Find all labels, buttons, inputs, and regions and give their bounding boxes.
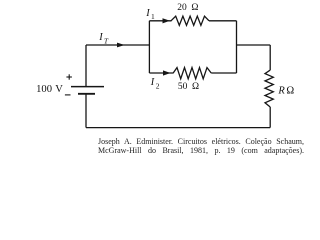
label R ohm — [277, 86, 294, 97]
svg-text:T: T — [104, 36, 109, 45]
battery 100 V: short (-) plate — [78, 93, 95, 95]
resistor 20 ohm (top branch zigzag) — [171, 16, 209, 25]
wire: bottom branch from resistor to right box line — [211, 72, 236, 74]
wire: left vertical from top wire down to battery positive plate — [85, 45, 87, 86]
svg-text:1: 1 — [151, 12, 155, 21]
arrow: total current direction IT — [117, 43, 125, 48]
arrow: branch current direction I2 — [163, 70, 171, 75]
svg-text:100 V: 100 V — [36, 84, 63, 95]
battery plus sign — [66, 74, 72, 79]
svg-text:I: I — [150, 77, 155, 88]
label IT — [98, 32, 109, 46]
svg-text:20 Ω: 20 Ω — [177, 3, 198, 13]
svg-text:I: I — [98, 32, 103, 43]
wire: output wire from parallel box to load branch — [237, 44, 271, 46]
resistor 50 ohm (bottom branch zigzag) — [173, 68, 211, 79]
battery minus sign — [65, 94, 71, 96]
caption: source reference text — [98, 137, 304, 155]
svg-text:R: R — [277, 86, 285, 97]
arrow: branch current direction I1 — [163, 18, 171, 23]
wire: load branch vertical lead down to resistor R — [269, 45, 271, 70]
svg-text:2: 2 — [156, 81, 160, 90]
wire: top branch from resistor to right box line — [209, 20, 237, 22]
label I2 — [150, 77, 160, 90]
wire: bottom branch lead into resistor 50 ohm — [149, 72, 173, 74]
wire: left vertical from battery negative plate down to bottom wire — [85, 94, 87, 128]
svg-text:Ω: Ω — [286, 86, 294, 97]
wire: right vertical of parallel branch box — [236, 21, 238, 73]
wire: left vertical of parallel branch box — [148, 21, 150, 73]
wire: load branch vertical lead from resistor R to bottom wire — [269, 107, 271, 128]
label I1 — [145, 8, 155, 21]
wire: top branch lead into resistor 20 ohm — [149, 20, 171, 22]
resistor R ohm (vertical zigzag) — [265, 70, 273, 107]
wire: main top wire from source to parallel box — [86, 44, 149, 46]
battery 100 V: long (+) plate — [71, 86, 104, 88]
wire: bottom return wire — [86, 127, 270, 129]
svg-text:50 Ω: 50 Ω — [178, 82, 199, 92]
svg-text:I: I — [145, 8, 150, 19]
